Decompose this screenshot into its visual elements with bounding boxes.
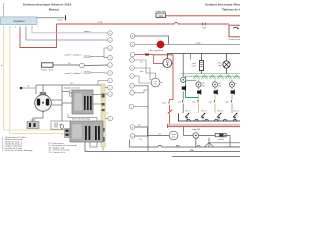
svg-text:noir: noir (140, 62, 143, 64)
column left lamp x184 (182, 54, 184, 78)
svg-text:gris: gris (138, 125, 141, 127)
svg-text:sonde T° cylindre 1: sonde T° cylindre 1 (64, 55, 82, 57)
regulator box (blue) (1, 17, 38, 25)
wire y135.5 (184, 135, 193, 137)
wires alternator right (51, 99, 62, 101)
svg-text:g: g (132, 127, 133, 129)
red feed bus pink (167, 124, 240, 126)
svg-text:interr 1: interr 1 (185, 110, 191, 113)
svg-text:mar: mar (139, 139, 142, 141)
alternator stator (42, 85, 44, 92)
wire alternator bottom (33, 111, 43, 121)
svg-text:tours: tours (172, 136, 176, 139)
chevron connectors (186, 75, 240, 77)
legend column 2 (49, 142, 78, 154)
wire horn right (224, 136, 230, 148)
svg-text:boîtier CDI allumage: boîtier CDI allumage (72, 118, 91, 121)
svg-text:5W: 5W (202, 86, 205, 88)
wire sonde1 (90, 48, 108, 57)
svg-text:2: 2 (109, 73, 110, 75)
horn cluster wires (134, 60, 155, 78)
svg-text:n: n (109, 48, 110, 50)
wire sonde1b (104, 57, 108, 58)
switch contact (168, 101, 171, 103)
svg-text:n: n (131, 106, 132, 108)
wire y44.5 to right (164, 44, 240, 46)
wire bulb down (195, 138, 197, 147)
wire yellow 2 (10, 28, 65, 134)
lamp column x234 (231, 80, 233, 82)
svg-text:stop: stop (225, 101, 228, 104)
svg-text:n: n (131, 60, 132, 62)
kill-switch box (coupe circuit) (229, 25, 242, 37)
svg-text:LED régulateur: LED régulateur (149, 49, 164, 52)
LED regulateur D1 (157, 41, 164, 48)
gauge circle (151, 78, 160, 87)
indicator bulb (193, 133, 199, 139)
inline fuse on red bus (202, 23, 204, 26)
svg-text:g: g (109, 40, 110, 42)
wires bullets bottom (135, 127, 148, 136)
resistor block (201, 54, 203, 61)
svg-text:rouge: rouge (97, 22, 103, 24)
ground bus (178, 114, 240, 122)
svg-text:Moteur: Moteur (49, 7, 60, 11)
svg-text:clig: clig (209, 102, 212, 104)
svg-text:interr 4: interr 4 (233, 110, 239, 113)
lamp column x200 (198, 80, 200, 82)
bottom bus 2 (85, 142, 240, 151)
svg-text:10A: 10A (158, 14, 163, 18)
svg-text:régulateur tension: régulateur tension (64, 86, 80, 89)
svg-text:a: a (82, 65, 83, 67)
wire sonde2 (90, 72, 108, 75)
wire to LED (135, 44, 157, 46)
bottom bus 3 (172, 156, 240, 158)
wire to connector J1 (37, 17, 65, 19)
svg-text:12 - Contact à clé: 12 - Contact à clé (49, 151, 67, 154)
red feed bus dark (167, 126, 240, 128)
wire red from pin 4 (20, 24, 57, 48)
legend column 1 (2, 136, 33, 152)
bullet column left (moteur side) (108, 31, 113, 121)
svg-text:7 - Prise de connexion alluma: 7 - Prise de connexion allumage (2, 150, 33, 152)
terminal strip (101, 84, 105, 147)
title right (205, 3, 246, 12)
wire yellow 1 (4, 28, 65, 131)
svg-text:fusible 7 amp: fusible 7 amp (41, 70, 54, 72)
svg-text:tance: tance (192, 64, 196, 67)
svg-text:b: b (131, 68, 132, 70)
wire red R54.5 (135, 54, 153, 56)
svg-text:rage: rage (218, 65, 222, 67)
wire box1 to box2 (68, 114, 97, 121)
svg-text:5W: 5W (218, 86, 221, 88)
strip bottom stub (102, 147, 104, 151)
svg-text:sonde T° cylindre 2: sonde T° cylindre 2 (64, 73, 82, 75)
svg-text:interr 2: interr 2 (201, 110, 207, 113)
svg-text:compt: compt (171, 133, 176, 136)
wire y53.5 to right (167, 53, 240, 55)
inline connector (145, 53, 149, 55)
connector J1 bars (65, 15, 67, 20)
CDI bottom wire 2 (90, 142, 97, 147)
horn H1 (215, 133, 226, 136)
svg-text:fusible: fusible (218, 139, 225, 141)
wire fuse to bullet (53, 64, 80, 66)
ignition coil box (51, 121, 70, 129)
speedo circle (169, 131, 178, 140)
wire to speedo (148, 135, 170, 137)
lamp eclairage (226, 54, 228, 61)
wire lavender from pin 6 (32, 28, 108, 33)
pickup coil box (27, 122, 39, 129)
svg-text:batterie: batterie (84, 30, 90, 33)
wire drop to stator left (35, 85, 37, 94)
wires right pair (209, 142, 240, 144)
ignition switch S1 (166, 54, 168, 59)
bottom bus 1 (130, 140, 159, 148)
svg-text:n: n (110, 118, 111, 120)
svg-text:feu: feu (178, 102, 181, 104)
wire purple from pin 5 (26, 28, 108, 41)
harness boundary line (181, 73, 240, 75)
wire to horn (199, 135, 216, 137)
bullet connector mid (80, 63, 85, 68)
title left (23, 3, 72, 12)
wire red bus y24 (57, 23, 175, 25)
svg-text:12: 12 (235, 83, 237, 85)
bottom right: feed drop (183, 127, 185, 136)
wire bullet to L65 (84, 64, 107, 67)
wires strip to bullets (93, 94, 101, 96)
svg-text:12+: 12+ (68, 63, 71, 65)
wire tick to alternator (22, 87, 36, 89)
wire green (186, 76, 199, 97)
svg-text:b: b (132, 36, 133, 38)
svg-text:noir: noir (158, 134, 161, 136)
wire red down (153, 55, 174, 101)
bullet at box1 edge (69, 90, 72, 93)
svg-text:dém: dém (162, 102, 166, 104)
svg-text:rouge: rouge (195, 43, 201, 45)
bullet column right (tableau side) (129, 34, 135, 139)
svg-text:capteur: capteur (30, 119, 36, 122)
sonde T2 component (84, 72, 90, 74)
svg-text:Schéma électrique Albatros: Schéma électrique Albatros (205, 3, 240, 7)
svg-text:bleu: bleu (140, 71, 143, 73)
wires bullets mid to x148 (134, 86, 148, 152)
pin numbers (3, 26, 39, 28)
wire 12V line (36, 84, 101, 86)
svg-text:Coupe circuit: Coupe circuit (228, 38, 240, 41)
switch levers row (185, 113, 237, 118)
svg-text:régulateur: régulateur (13, 19, 25, 23)
hop on red bus (174, 22, 177, 24)
svg-text:v: v (110, 94, 111, 96)
wire vertical top-left (3, 3, 5, 17)
red lever (168, 110, 173, 114)
lamp column x217 (214, 80, 216, 82)
wire stub L80 (98, 81, 108, 86)
svg-text:b: b (109, 33, 110, 35)
wire red from fuse (166, 15, 241, 17)
svg-text:g: g (132, 44, 133, 46)
wire red branch to key (154, 55, 164, 64)
svg-text:masse: masse (57, 20, 63, 22)
sonde T1 component (84, 56, 90, 58)
svg-text:interr 3: interr 3 (217, 110, 223, 113)
svg-text:clig: clig (192, 102, 195, 104)
fuse F2 7A (42, 63, 54, 67)
svg-text:Tableau de bor: Tableau de bor (222, 7, 240, 11)
svg-text:hor: hor (154, 84, 157, 86)
svg-text:Schéma électrique Albatros 201: Schéma électrique Albatros 2019 (23, 3, 72, 7)
junction fan (208, 138, 210, 147)
wire purple R36 (135, 36, 169, 45)
svg-text:v: v (132, 76, 133, 78)
svg-text:ja: ja (0, 65, 2, 67)
capacitor tick (20, 87, 22, 89)
svg-text:1: 1 (109, 58, 110, 60)
svg-text:ve: ve (106, 112, 108, 114)
svg-text:rouge 12V: rouge 12V (192, 129, 201, 131)
yellow wires connector (65, 129, 70, 138)
